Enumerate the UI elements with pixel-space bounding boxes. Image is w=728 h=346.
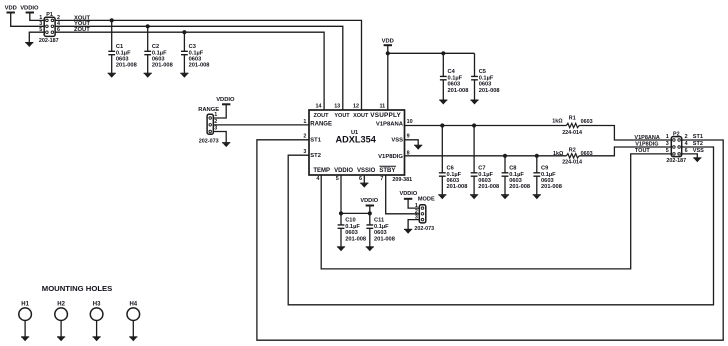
svg-text:ST1: ST1 — [693, 134, 703, 140]
svg-text:201-008: 201-008 — [479, 88, 500, 94]
wire VDD to U1 pin 11 VSUPPLY — [387, 45, 389, 110]
wire RANGE pin2 to U1 pin 1 — [213, 124, 309, 126]
capacitor C2 0.1uF — [144, 26, 173, 77]
svg-text:V1P8ANA: V1P8ANA — [634, 135, 659, 141]
svg-text:201-008: 201-008 — [345, 236, 366, 242]
svg-text:209-381: 209-381 — [392, 177, 412, 183]
svg-text:0603: 0603 — [189, 57, 202, 63]
wire U1 pin5 VDDIO down to C10 C11 rail — [341, 175, 370, 213]
svg-text:1kΩ: 1kΩ — [553, 151, 564, 157]
svg-text:V1P8ANA: V1P8ANA — [376, 122, 404, 128]
wire R1 to P2 pin 1 — [579, 126, 671, 141]
resistor R1 1k — [552, 115, 592, 136]
U1 pin label VSUPPLY (pin 11) — [370, 104, 401, 119]
connector MODE 202-073 — [414, 197, 435, 232]
wire U1 pin 9 VSS to ground — [405, 140, 419, 146]
svg-text:0603: 0603 — [478, 178, 491, 184]
svg-text:VSSIO: VSSIO — [357, 168, 376, 174]
svg-text:VDDIO: VDDIO — [334, 168, 353, 174]
U1 pin label STBY (pin 7) with overline — [379, 166, 396, 182]
svg-text:0603: 0603 — [581, 119, 593, 125]
svg-text:9: 9 — [407, 134, 410, 140]
svg-text:6: 6 — [685, 148, 688, 154]
mounting hole H1 — [19, 301, 32, 341]
svg-text:0.1µF: 0.1µF — [479, 75, 494, 81]
svg-text:14: 14 — [316, 104, 322, 110]
junction on YOUT at C2 — [146, 24, 150, 28]
svg-text:C6: C6 — [447, 166, 454, 172]
svg-text:10: 10 — [407, 119, 413, 125]
svg-text:YOUT: YOUT — [334, 113, 350, 119]
svg-text:202-187: 202-187 — [666, 158, 686, 164]
junction at C8 on V1P8DIG — [503, 154, 507, 158]
svg-text:1: 1 — [214, 112, 217, 118]
svg-text:0.1µF: 0.1µF — [345, 224, 360, 230]
wire P2 pin 6 VSS to ground — [682, 154, 698, 158]
net V1P8DIG wire U1 pin8 to R2 to P2 pin 3 — [405, 155, 567, 157]
svg-text:C4: C4 — [448, 69, 456, 75]
net V1P8ANA wire U1 pin10 to R1 to P2 pin 1 — [405, 125, 567, 127]
svg-text:3: 3 — [303, 149, 306, 155]
U1 pin label ST2 (pin 3) — [303, 149, 321, 159]
svg-text:STBY: STBY — [379, 168, 395, 174]
mounting hole H2 — [55, 301, 68, 341]
svg-text:202-187: 202-187 — [39, 38, 59, 44]
svg-text:3: 3 — [415, 215, 418, 221]
wire U1 pin7 STBY to MODE pin2 — [386, 175, 420, 214]
svg-text:C5: C5 — [479, 69, 486, 75]
wire net ST1 loop U1 pin2 to P2 pin2 — [257, 140, 723, 340]
svg-text:5: 5 — [666, 148, 669, 154]
svg-text:201-008: 201-008 — [116, 63, 137, 69]
svg-text:ST1: ST1 — [310, 138, 321, 144]
svg-text:202-073: 202-073 — [199, 139, 219, 145]
power flag VDDIO (RANGE) — [216, 97, 235, 104]
U1 pin label YOUT (pin 13) — [334, 104, 350, 119]
wire VDD rail to C4 C5 — [388, 52, 475, 54]
junction on ZOUT at C3 — [182, 30, 186, 34]
mounting hole H3 — [90, 301, 103, 341]
svg-text:R1: R1 — [569, 115, 576, 121]
svg-text:P2: P2 — [673, 132, 680, 138]
net YOUT wire P1 pin4 to U1 pin 13 — [55, 26, 343, 110]
ground at VSSIO — [360, 183, 368, 187]
svg-text:13: 13 — [334, 104, 340, 110]
junction at C4 — [441, 51, 445, 55]
svg-text:V1P8DIG: V1P8DIG — [378, 154, 403, 160]
svg-text:201-008: 201-008 — [448, 88, 469, 94]
svg-text:0603: 0603 — [541, 178, 554, 184]
svg-text:C10: C10 — [345, 218, 355, 224]
svg-text:C8: C8 — [509, 166, 516, 172]
wire VDDIO flag to rail — [369, 206, 371, 214]
svg-text:0603: 0603 — [374, 230, 387, 236]
ground at MODE pin 3 — [404, 229, 412, 233]
svg-text:MOUNTING HOLES: MOUNTING HOLES — [42, 284, 112, 293]
svg-text:XOUT: XOUT — [353, 113, 369, 119]
svg-text:H2: H2 — [57, 301, 65, 307]
svg-text:0603: 0603 — [448, 82, 461, 88]
svg-text:VSS: VSS — [391, 138, 403, 144]
svg-text:0.1µF: 0.1µF — [189, 50, 204, 56]
svg-text:0.1µF: 0.1µF — [116, 50, 131, 56]
svg-text:MODE: MODE — [418, 197, 435, 203]
svg-text:201-008: 201-008 — [374, 236, 395, 242]
ground at U1 VSS — [414, 145, 422, 149]
svg-text:0.1µF: 0.1µF — [447, 172, 462, 178]
svg-text:VSS: VSS — [693, 148, 704, 154]
svg-text:VDD: VDD — [5, 6, 17, 12]
svg-text:0.1µF: 0.1µF — [541, 172, 556, 178]
capacitor C9 0.1uF — [533, 156, 562, 199]
wire VDDIO to P1 pin 1 — [30, 13, 44, 21]
svg-text:2: 2 — [214, 119, 217, 125]
capacitor C11 0.1uF — [366, 213, 395, 251]
junction at C10 — [339, 211, 343, 215]
svg-text:0.1µF: 0.1µF — [448, 75, 463, 81]
junction at C6 on V1P8ANA — [440, 123, 444, 127]
svg-text:4: 4 — [316, 176, 319, 182]
junction at C9 on V1P8DIG — [535, 154, 539, 158]
power flag VDDIO (C11) — [360, 198, 378, 206]
wire U1 pin6 VSSIO to ground — [363, 175, 365, 183]
svg-text:C9: C9 — [541, 166, 548, 172]
svg-text:5: 5 — [336, 176, 339, 182]
svg-text:6: 6 — [359, 176, 362, 182]
wire MODE pin3 to ground — [408, 220, 419, 230]
U1 pin label V1P8DIG (pin 8) — [378, 150, 409, 160]
svg-text:V1P8DIG: V1P8DIG — [635, 141, 658, 147]
U1 pin label VSSIO (pin 6) — [357, 168, 376, 182]
svg-text:201-008: 201-008 — [509, 184, 530, 190]
svg-text:VDDIO: VDDIO — [216, 97, 235, 103]
junction at C11 — [368, 211, 372, 215]
capacitor C7 0.1uF — [470, 126, 499, 200]
svg-text:2: 2 — [685, 134, 688, 140]
U1 pin label XOUT (pin 12) — [353, 104, 369, 119]
svg-text:H1: H1 — [21, 301, 29, 307]
svg-text:ST2: ST2 — [310, 153, 321, 159]
svg-text:201-008: 201-008 — [478, 184, 499, 190]
svg-text:12: 12 — [353, 104, 359, 110]
svg-text:H4: H4 — [129, 301, 137, 307]
svg-text:0603: 0603 — [479, 82, 492, 88]
svg-text:C2: C2 — [152, 44, 159, 50]
svg-text:VSUPPLY: VSUPPLY — [370, 112, 401, 119]
power flag VDD (top left) — [5, 6, 17, 13]
svg-text:H3: H3 — [93, 301, 101, 307]
svg-text:5: 5 — [39, 27, 42, 33]
svg-text:202-073: 202-073 — [414, 226, 434, 232]
svg-text:3: 3 — [214, 126, 217, 132]
svg-text:0603: 0603 — [116, 57, 129, 63]
U1 pin label TEMP (pin 4) — [313, 168, 330, 182]
svg-text:7: 7 — [380, 176, 383, 182]
svg-text:1: 1 — [666, 134, 669, 140]
capacitor C8 0.1uF — [501, 156, 530, 199]
svg-text:VDDIO: VDDIO — [20, 6, 39, 12]
wire net TOUT loop U1 pin4 TEMP to P2 pin5 — [321, 154, 671, 269]
svg-text:2: 2 — [303, 134, 306, 140]
ground at P2 pin 6 — [693, 158, 701, 162]
svg-text:VDD: VDD — [382, 39, 394, 45]
svg-text:0.1µF: 0.1µF — [478, 172, 493, 178]
svg-text:C1: C1 — [116, 44, 123, 50]
op-amp U1 ADXL354 body — [309, 110, 405, 175]
svg-text:201-008: 201-008 — [541, 184, 562, 190]
svg-text:3: 3 — [666, 141, 669, 147]
svg-text:201-008: 201-008 — [152, 63, 173, 69]
wire P1 pin 5 to ground — [29, 32, 44, 42]
svg-text:ZOUT: ZOUT — [74, 27, 90, 33]
U1 pin label VDDIO (pin 5) — [334, 168, 353, 182]
capacitor C5 0.1uF — [470, 53, 499, 104]
mounting hole H4 — [127, 301, 140, 341]
svg-text:C11: C11 — [374, 218, 384, 224]
svg-text:0603: 0603 — [509, 178, 522, 184]
ground at RANGE pin 3 — [222, 143, 230, 147]
connector P1 202-187 — [39, 12, 60, 44]
capacitor C3 0.1uF — [180, 32, 209, 77]
svg-text:224-014: 224-014 — [562, 130, 582, 136]
junction VDD line — [386, 51, 390, 55]
svg-text:VDDIO: VDDIO — [360, 198, 378, 204]
svg-text:RANGE: RANGE — [310, 122, 332, 128]
svg-text:201-008: 201-008 — [189, 63, 210, 69]
svg-text:R2: R2 — [569, 147, 576, 153]
capacitor C1 0.1uF — [108, 20, 137, 77]
svg-text:1kΩ: 1kΩ — [552, 118, 563, 124]
svg-text:ZOUT: ZOUT — [314, 113, 330, 119]
power flag VDD (above U1) — [382, 39, 394, 46]
power flag VDDIO (MODE) — [400, 191, 418, 199]
net ZOUT wire P1 pin6 to U1 pin 14 — [55, 32, 324, 110]
svg-text:201-008: 201-008 — [447, 184, 468, 190]
ground at P1 pin 5 — [25, 43, 33, 47]
svg-text:VDDIO: VDDIO — [400, 191, 418, 197]
U1 pin label VSS (pin 9) — [391, 134, 409, 144]
svg-text:TEMP: TEMP — [313, 168, 330, 174]
svg-text:C7: C7 — [478, 166, 485, 172]
U1 pin label ST1 (pin 2) — [303, 134, 321, 144]
wire VDD to P1 pin 3 — [11, 13, 45, 27]
wire MODE pin1 to VDDIO — [408, 199, 419, 208]
resistor R2 1k — [553, 147, 593, 165]
wire R2 to P2 pin 3 — [579, 147, 671, 156]
U1 pin label ZOUT (pin 14) — [314, 104, 330, 119]
svg-text:P1: P1 — [46, 12, 53, 18]
U1 pin label V1P8ANA (pin 10) — [376, 119, 413, 128]
connector P2 202-187 — [666, 132, 688, 164]
svg-text:C3: C3 — [189, 44, 196, 50]
svg-text:4: 4 — [685, 141, 688, 147]
capacitor C4 0.1uF — [439, 53, 468, 104]
wire RANGE pin1 to VDDIO — [213, 104, 226, 118]
svg-text:0603: 0603 — [152, 57, 165, 63]
svg-text:224-014: 224-014 — [562, 160, 582, 166]
svg-text:0603: 0603 — [447, 178, 460, 184]
capacitor C6 0.1uF — [438, 126, 467, 200]
connector RANGE 202-073 — [198, 107, 219, 144]
net XOUT wire P1 pin2 to U1 pin 12 — [55, 20, 361, 110]
junction at C7 on V1P8ANA — [472, 123, 476, 127]
capacitor C10 0.1uF — [337, 213, 366, 251]
svg-text:0.1µF: 0.1µF — [374, 224, 389, 230]
power flag VDDIO (top left) — [20, 6, 39, 13]
svg-text:0.1µF: 0.1µF — [509, 172, 524, 178]
svg-text:0603: 0603 — [345, 230, 358, 236]
wire RANGE pin3 to ground — [213, 132, 226, 143]
wire net ST2 loop U1 pin3 to P2 pin4 — [288, 147, 713, 305]
svg-text:ADXL354: ADXL354 — [336, 135, 377, 145]
svg-text:0.1µF: 0.1µF — [152, 50, 167, 56]
U1 pin label RANGE (pin 1) — [303, 119, 332, 128]
junction on XOUT at C1 — [110, 18, 114, 22]
svg-text:1: 1 — [303, 119, 306, 125]
svg-text:11: 11 — [379, 104, 385, 110]
svg-text:ST2: ST2 — [693, 141, 703, 147]
